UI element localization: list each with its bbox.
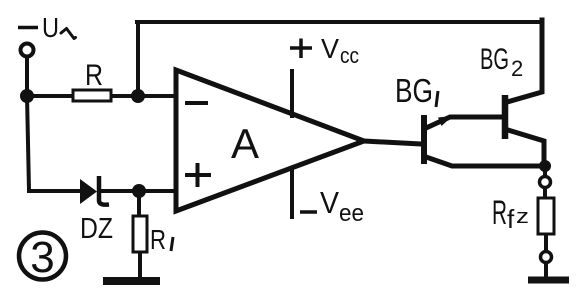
svg-text:3: 3	[30, 233, 54, 282]
svg-text:f: f	[507, 204, 515, 234]
svg-text:R: R	[150, 224, 166, 255]
svg-text:BG: BG	[480, 43, 509, 76]
svg-text:BG: BG	[395, 72, 433, 109]
svg-text:z: z	[516, 206, 529, 228]
svg-text:DZ: DZ	[80, 213, 113, 245]
svg-text:2: 2	[511, 56, 523, 81]
svg-text:ee: ee	[339, 200, 364, 227]
svg-text:V: V	[320, 185, 339, 220]
svg-text:U: U	[42, 12, 59, 43]
svg-text:A: A	[231, 120, 259, 167]
svg-text:V: V	[321, 33, 339, 64]
svg-text:R: R	[492, 194, 507, 232]
svg-text:cc: cc	[340, 43, 359, 68]
svg-text:R: R	[85, 59, 103, 92]
